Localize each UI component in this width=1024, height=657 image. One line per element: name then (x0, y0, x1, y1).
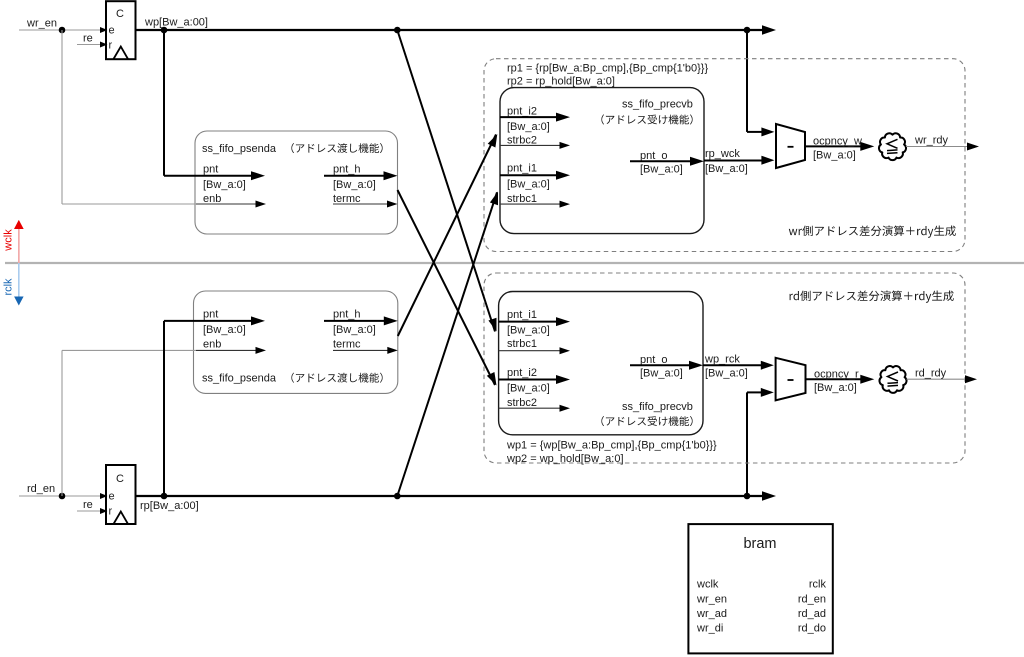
svg-text:termc: termc (333, 338, 361, 350)
wire ocpncy_r (806, 378, 865, 380)
wire+arrow enb (rd) (196, 349, 256, 351)
node rp junction at subtractor (744, 493, 751, 500)
svg-text:ocpncy_w: ocpncy_w (813, 135, 862, 147)
wire psenda-rd pnt_h to precvb-wr pnt_i2 (diagonal) (398, 135, 496, 337)
arrow pnt (wr) (251, 171, 265, 180)
pin arrow r (rd FF) (100, 508, 108, 514)
svg-text:[Bw_a:0]: [Bw_a:0] (705, 368, 748, 380)
arrow pnt_o (rd) (689, 361, 703, 370)
label (アドレス受け機能) wr (601, 114, 692, 124)
svg-text:[Bw_a:0]: [Bw_a:0] (640, 164, 683, 176)
svg-text:rd_do: rd_do (798, 623, 826, 635)
svg-text:pnt_h: pnt_h (333, 164, 361, 176)
node rd_en branch junction (59, 493, 66, 500)
svg-text:[Bw_a:0]: [Bw_a:0] (640, 368, 683, 380)
svg-text:termc: termc (333, 193, 361, 205)
svg-text:wp[Bw_a:00]: wp[Bw_a:00] (144, 17, 208, 29)
comparator cloud (rd) (879, 366, 906, 393)
wire pnt_o (wr) (630, 160, 695, 162)
wire pnt_h (wr) (324, 175, 390, 177)
svg-text:rd_en: rd_en (27, 483, 55, 495)
wire rp to psenda pnt (163, 321, 165, 496)
svg-text:[Bw_a:0]: [Bw_a:0] (203, 179, 246, 191)
svg-text:rp_wck: rp_wck (705, 148, 740, 160)
wclk domain arrow (red) (18, 228, 20, 263)
svg-text:rd_en: rd_en (798, 593, 826, 605)
svg-text:pnt_i1: pnt_i1 (507, 163, 537, 175)
svg-text:pnt: pnt (203, 309, 218, 321)
svg-text:wr_en: wr_en (696, 593, 727, 605)
clock notch (wr FF) (114, 47, 129, 60)
svg-text:[Bw_a:0]: [Bw_a:0] (333, 179, 376, 191)
block ss_fifo_psenda (wr) (195, 131, 398, 234)
wire ocpncy_w (805, 145, 864, 147)
svg-text:pnt_o: pnt_o (640, 150, 668, 162)
wire wp_rck (rd) (703, 364, 762, 366)
block ss_fifo_precvb (rd) (499, 292, 703, 435)
arrow pnt_h (rd) (384, 316, 398, 325)
svg-text:[Bw_a:0]: [Bw_a:0] (507, 178, 550, 190)
label wr側アドレス差分演算＋rdy生成 (789, 226, 956, 238)
svg-text:[Bw_a:0]: [Bw_a:0] (813, 149, 856, 161)
rclk domain arrow (blue) (18, 263, 20, 298)
svg-text:wr_rdy: wr_rdy (914, 134, 949, 146)
arrow wp bus end (762, 25, 776, 35)
svg-text:rd_rdy: rd_rdy (915, 367, 947, 379)
wire+arrow enb (wr) (196, 203, 256, 205)
node wp junction at diagonal (394, 27, 401, 34)
svg-text:wp_rck: wp_rck (704, 354, 740, 366)
svg-text:rclk: rclk (3, 278, 15, 296)
arrow into subtractor in2 (wr) (761, 156, 774, 165)
svg-text:pnt: pnt (203, 164, 218, 176)
svg-text:pnt_i1: pnt_i1 (507, 309, 537, 321)
wire re input (rd) (77, 510, 106, 512)
flip-flop rd pointer counter C (106, 465, 136, 524)
wire rp to precvb-wr pnt_i1 (diagonal) (397, 192, 497, 496)
svg-text:[Bw_a:0]: [Bw_a:0] (705, 163, 748, 175)
wire pnt_h (rd) (324, 320, 390, 322)
wire rd_en input (19, 495, 106, 497)
svg-text:strbc2: strbc2 (507, 397, 537, 409)
wire wr_en input (19, 29, 106, 31)
arrow into subtractor in1 (wr) (761, 127, 774, 136)
svg-text:pnt_h: pnt_h (333, 309, 361, 321)
flip-flop wr pointer counter C (106, 1, 136, 59)
node wp junction at subtractor (744, 27, 751, 34)
block bram (688, 524, 832, 653)
wire rp bus (136, 495, 766, 497)
svg-text:ss_fifo_precvb: ss_fifo_precvb (622, 99, 693, 111)
comparator cloud (wr) (879, 133, 906, 160)
wire+arrow strbc2 (rd) (499, 407, 560, 409)
svg-text:bram: bram (743, 536, 776, 552)
arrow wp diag (488, 318, 496, 332)
svg-text:e: e (109, 25, 115, 37)
arrow pnt_h-rd diag (488, 134, 498, 148)
svg-text:wclk: wclk (696, 579, 719, 591)
clock notch (rd FF) (114, 512, 129, 525)
svg-text:ocpncy_r: ocpncy_r (814, 368, 859, 380)
svg-text:rclk: rclk (809, 579, 827, 591)
svg-text:rp2 = rp_hold[Bw_a:0]: rp2 = rp_hold[Bw_a:0] (507, 75, 615, 87)
wire rp up to subtractor (746, 392, 748, 496)
arrow into subtractor in2 (rd) (761, 388, 774, 397)
block ss_fifo_precvb (wr) (500, 88, 704, 234)
wire+arrow strbc1 (wr) (500, 203, 560, 205)
arrow pnt (rd) (251, 316, 265, 325)
svg-text:r: r (109, 40, 113, 52)
pin arrow e (rd FF) (100, 493, 108, 499)
svg-text:strbc2: strbc2 (507, 135, 537, 147)
svg-text:C: C (116, 8, 124, 20)
subtractor (rd) (776, 358, 806, 401)
svg-text:pnt_i2: pnt_i2 (507, 106, 537, 118)
clock domain boundary line (5, 262, 1024, 264)
wire wr_en branch down to enb (61, 30, 63, 204)
svg-text:pnt_i2: pnt_i2 (507, 367, 537, 379)
arrow rp diag (490, 192, 498, 206)
arrow into cloud (rd) (860, 375, 874, 384)
wire+arrow pnt_i2 (rd) (499, 379, 558, 381)
svg-text:rp1 = {rp[Bw_a:Bp_cmp],{Bp_cmp: rp1 = {rp[Bw_a:Bp_cmp],{Bp_cmp{1'b0}}} (507, 62, 708, 74)
arrow pnt_o (wr) (690, 157, 704, 166)
svg-text:rp[Bw_a:00]: rp[Bw_a:00] (140, 500, 199, 512)
svg-text:enb: enb (203, 338, 221, 350)
svg-text:enb: enb (203, 193, 221, 205)
label (アドレス渡し機能) wr (291, 143, 382, 153)
svg-text:ss_fifo_psenda: ss_fifo_psenda (202, 373, 277, 385)
wire re input (wr) (77, 44, 106, 46)
node wr_en branch junction (59, 27, 66, 34)
label (アドレス渡し機能) rd (291, 373, 382, 383)
wire+arrow termc (wr) (333, 203, 389, 205)
wclk domain arrow (red) (18, 228, 20, 263)
wire wr_rdy (906, 146, 970, 148)
svg-text:re: re (83, 33, 93, 45)
region wr-side dashed box (484, 59, 965, 252)
arrow rd_rdy (965, 375, 977, 383)
svg-text:wclk: wclk (3, 229, 15, 252)
svg-text:[Bw_a:0]: [Bw_a:0] (814, 382, 857, 394)
arrow rp bus end (762, 491, 776, 501)
wire+arrow pnt_i1 (wr) (500, 174, 558, 176)
svg-text:pnt_o: pnt_o (640, 354, 668, 366)
wire+arrow termc (rd) (333, 349, 389, 351)
svg-text:C: C (116, 473, 124, 485)
wire wp to precvb-rd pnt_i1 (diagonal) (397, 30, 495, 332)
label rd側アドレス差分演算＋rdy生成 (790, 291, 954, 303)
wire rd_en branch up to enb (61, 350, 63, 496)
svg-text:ss_fifo_psenda: ss_fifo_psenda (202, 143, 277, 155)
svg-text:[Bw_a:0]: [Bw_a:0] (507, 324, 550, 336)
region rd-side dashed box (484, 273, 965, 463)
svg-text:wr_di: wr_di (696, 623, 723, 635)
node wp junction at pnt branch (161, 27, 168, 34)
arrow into cloud (wr) (860, 142, 874, 151)
svg-text:[Bw_a:0]: [Bw_a:0] (203, 324, 246, 336)
node rp junction at pnt branch (161, 493, 168, 500)
label minus (rd) (788, 379, 794, 381)
wire rp_wck (wr) (704, 160, 762, 162)
svg-text:ss_fifo_precvb: ss_fifo_precvb (622, 401, 693, 413)
wire+arrow pnt_i1 (rd) (499, 321, 558, 323)
svg-text:wr_en: wr_en (26, 18, 57, 30)
pin arrow e (wr FF) (100, 27, 108, 33)
svg-text:[Bw_a:0]: [Bw_a:0] (333, 324, 376, 336)
wire pnt_o (rd) (630, 364, 694, 366)
label <= (rd) (888, 372, 899, 386)
svg-text:strbc1: strbc1 (507, 193, 537, 205)
svg-text:wr_ad: wr_ad (696, 608, 727, 620)
label (アドレス受け機能) rd (601, 416, 692, 426)
wire rd_rdy (907, 378, 969, 380)
svg-text:wp1 = {wp[Bw_a:Bp_cmp],{Bp_cmp: wp1 = {wp[Bw_a:Bp_cmp],{Bp_cmp{1'b0}}} (506, 439, 717, 451)
pin arrow r (wr FF) (100, 42, 108, 48)
svg-text:r: r (109, 506, 113, 518)
svg-text:e: e (109, 491, 115, 503)
wire wp to psenda pnt (163, 30, 165, 176)
wire+arrow strbc1 (rd) (499, 350, 560, 352)
block ss_fifo_psenda (rd) (194, 291, 398, 393)
svg-text:wp2 = wp_hold[Bw_a:0]: wp2 = wp_hold[Bw_a:0] (506, 453, 624, 465)
node rp junction at diagonal (394, 493, 401, 500)
svg-text:[Bw_a:0]: [Bw_a:0] (507, 382, 550, 394)
arrow into subtractor in1 (rd) (761, 361, 774, 370)
arrow wr_rdy (967, 143, 979, 151)
arrow pnt_h (wr) (384, 171, 398, 180)
subtractor (wr) (776, 124, 805, 168)
label <= (wr) (887, 139, 898, 153)
svg-text:[Bw_a:0]: [Bw_a:0] (507, 121, 550, 133)
wire+arrow strbc2 (wr) (500, 144, 560, 146)
wire psenda-wr pnt_h to precvb-rd pnt_i2 (diagonal) (398, 190, 496, 385)
svg-text:rd_ad: rd_ad (798, 608, 826, 620)
svg-text:strbc1: strbc1 (507, 338, 537, 350)
wire wp down to subtractor (746, 30, 748, 132)
wire wp bus (136, 29, 766, 31)
arrow pnt_h-wr diag (487, 372, 497, 386)
svg-text:re: re (83, 499, 93, 511)
label minus (wr) (788, 146, 794, 148)
wire+arrow pnt_i2 (wr) (500, 116, 558, 118)
